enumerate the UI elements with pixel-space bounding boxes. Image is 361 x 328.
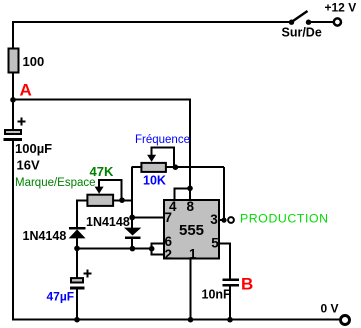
wire pin 6 / pin 2 stubs [151,242,165,255]
svg-text:1N4148: 1N4148 [23,229,67,243]
junction 10K right terminal [173,164,179,170]
wire vertical x190 down to pin8 node [189,99,191,189]
svg-text:3: 3 [210,212,218,227]
wire diode node to pins 2/6 [77,248,152,250]
junction pin 7 node [129,215,135,221]
svg-text:Marque/Espace: Marque/Espace [15,177,96,189]
svg-text:10nF: 10nF [202,288,232,302]
wire 47K left terminal [76,199,88,201]
wire pin 3 stub [219,219,225,221]
svg-text:+12 V: +12 V [325,1,357,15]
svg-text:PRODUCTION: PRODUCTION [240,212,329,226]
junction pin 3 [221,218,226,223]
wire node A horizontal to pins 4/8 [12,99,191,101]
pot R2 wiper [95,179,123,200]
pot R3 wiper [147,147,175,168]
capacitor C3 10nF plates [222,279,239,287]
potentiometer R3 10K body [141,163,166,172]
capacitor C1 100uF plus sign [18,117,26,125]
wire left vertical from top rail to R1 [12,21,14,48]
diode D1 1N4148 (cathode up) [69,227,86,249]
wire 47K left down to D1 [76,200,78,228]
terminal +12V [334,18,341,25]
svg-text:10K: 10K [143,174,166,188]
wire top +12V rail [12,21,292,23]
wire left vertical C1 to bottom rail [12,141,14,320]
junction D2 cathode [130,246,136,252]
resistor R1 100 [9,49,19,73]
svg-text:100: 100 [23,54,45,69]
capacitor C2 47uF plates [70,278,85,289]
svg-text:2: 2 [165,247,173,262]
junction C2 rail [74,317,80,323]
wire pin 1 to rail [190,259,192,320]
svg-text:A: A [20,81,32,100]
wire 10K right to pin3 net [166,166,225,220]
capacitor C1 100uF plates [4,130,23,141]
diode D2 1N4148 (cathode down) [124,228,141,250]
wire pin 5 to C3 [219,243,231,279]
terminal 0V [341,316,350,325]
svg-text:5: 5 [211,235,219,250]
wire branch to pin 4 [174,187,191,200]
wire pin 7 stub [131,216,164,218]
wire bottom 0V rail [12,319,340,321]
wire R1 to node A to C1 [12,73,14,131]
svg-text:16V: 16V [17,158,40,173]
junction pin 2/6 link [149,246,155,252]
svg-text:1N4148: 1N4148 [86,215,130,229]
capacitor C2 47uF plus sign [83,269,91,277]
op-amp U1 555 body [164,200,219,259]
wire 10K left terminal [132,166,143,168]
svg-text:7: 7 [165,210,173,225]
svg-text:555: 555 [179,222,204,239]
wire C3 to rail [229,286,231,319]
svg-text:Fréquence: Fréquence [135,134,190,146]
junction pin 1 rail [188,317,194,323]
wire junction to pin 8 [189,188,191,200]
potentiometer R2 47K body [87,195,113,206]
svg-text:100µF: 100µF [15,141,52,156]
junction 47K right terminal [119,197,125,203]
svg-text:0 V: 0 V [321,302,339,316]
switch SW1 Sur/De [289,11,333,25]
svg-text:8: 8 [187,199,195,214]
terminal PRODUCTION output [228,217,234,223]
node A junction [10,97,16,103]
svg-text:47µF: 47µF [47,289,75,303]
junction C3 rail [227,317,233,323]
wire 47K right terminal [113,199,133,201]
svg-text:B: B [241,274,253,293]
junction pins 4/8 [187,186,193,192]
capacitor C2 47uF wire top [76,248,78,278]
junction D1 anode [74,246,80,252]
svg-text:Sur/De: Sur/De [282,26,322,40]
wire C2 to rail [76,289,78,320]
wire vertical x132 from 10K down to diode node [131,167,133,228]
